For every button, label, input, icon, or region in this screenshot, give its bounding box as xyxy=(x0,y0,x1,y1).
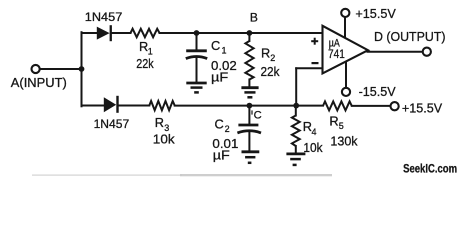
label R2 value xyxy=(261,45,280,79)
svg-text:2: 2 xyxy=(270,53,275,63)
label R5 value xyxy=(329,113,358,148)
wire: op-amp V- supply xyxy=(345,61,347,88)
wire: output to terminal D xyxy=(368,51,423,53)
capacitor C1 xyxy=(186,51,207,59)
svg-text:C: C xyxy=(211,38,220,53)
node C junction xyxy=(247,103,253,109)
svg-text:C: C xyxy=(254,110,262,122)
svg-text:C: C xyxy=(215,116,224,131)
op-amp U1 µA741 xyxy=(311,26,368,74)
- input sign xyxy=(312,62,319,64)
junction: inverting input / R4 / R5 xyxy=(293,103,299,109)
wire: C2 bottom lead to ground xyxy=(248,133,250,151)
svg-text:D (OUTPUT): D (OUTPUT) xyxy=(374,30,446,44)
wire: R4 bottom lead to ground xyxy=(295,146,297,153)
svg-text:10k: 10k xyxy=(303,140,323,155)
wire: R1 to op-amp + input (through C1 and B nodes) xyxy=(160,32,323,34)
svg-text:-15.5V: -15.5V xyxy=(359,84,396,99)
wire: input vertical riser xyxy=(81,32,83,106)
terminal -15.5V xyxy=(342,88,350,96)
wire: R5 to +15.5V terminal xyxy=(352,105,391,107)
wire: R3 to R5 (through C and inverting nodes) xyxy=(175,105,323,107)
svg-text:B: B xyxy=(250,11,258,25)
svg-text:2: 2 xyxy=(225,124,230,134)
svg-text:A(INPUT): A(INPUT) xyxy=(11,76,67,90)
wire: bottom branch to diode D2 xyxy=(82,105,104,107)
wire: C1 bottom lead to ground xyxy=(196,58,198,82)
svg-text:5: 5 xyxy=(339,121,344,131)
diode D2 1N457 (bottom) xyxy=(104,96,119,113)
wire: diode D2 to R3 xyxy=(119,105,150,107)
svg-text:4: 4 xyxy=(312,127,317,137)
svg-text:+15.5V: +15.5V xyxy=(402,101,443,116)
scan artifact: faint bottom streak xyxy=(32,174,182,176)
terminal +15.5V (top) xyxy=(341,9,349,17)
label R3 value xyxy=(153,115,175,146)
capacitor C2 xyxy=(237,125,261,133)
label R4 value xyxy=(303,119,323,155)
diode D1 1N457 (top) xyxy=(97,25,112,41)
wire: R4 top lead xyxy=(295,106,297,116)
junction: C1 at top wire xyxy=(194,30,200,36)
wire: inverting input vertical to bottom node xyxy=(295,68,297,105)
svg-text:SeekIC.com: SeekIC.com xyxy=(403,162,457,176)
resistor R3 xyxy=(149,101,174,110)
resistor R5 xyxy=(323,101,352,110)
wire: R2 top lead xyxy=(248,33,250,41)
svg-text:130k: 130k xyxy=(330,133,358,148)
svg-text:1: 1 xyxy=(222,46,227,56)
svg-text:µA: µA xyxy=(329,38,341,50)
wire: C2 top lead xyxy=(248,106,250,124)
terminal D (output) xyxy=(423,48,431,56)
ground (R2) xyxy=(241,88,258,98)
wire: top branch to diode D1 xyxy=(82,32,97,34)
svg-text:1N457: 1N457 xyxy=(94,117,130,131)
label C1 value xyxy=(211,38,237,84)
+ input sign xyxy=(311,38,318,45)
ground (C2) xyxy=(242,152,260,163)
node A junction xyxy=(79,66,85,72)
svg-text:22k: 22k xyxy=(261,64,280,79)
wire: op-amp V+ supply xyxy=(344,18,346,39)
wire: R2 bottom lead to ground xyxy=(248,80,250,87)
svg-text:10k: 10k xyxy=(153,132,175,147)
resistor R4 xyxy=(292,116,300,147)
svg-text:µF: µF xyxy=(211,70,229,84)
terminal +15.5V (right) xyxy=(391,102,399,110)
resistor R1 xyxy=(131,29,160,37)
ground (C1) xyxy=(186,83,206,92)
label C2 value xyxy=(212,116,238,162)
wire: op-amp inverting input horizontal xyxy=(296,67,322,69)
label R1 value xyxy=(136,39,154,71)
wire: diode D1 to R1 xyxy=(112,32,131,34)
wire: input horizontal xyxy=(40,68,82,70)
wire: C1 top lead xyxy=(196,33,198,50)
resistor R2 xyxy=(245,41,253,80)
svg-text:R: R xyxy=(155,115,164,130)
svg-text:741: 741 xyxy=(328,49,345,61)
svg-text:R: R xyxy=(261,45,270,60)
ground (R4) xyxy=(286,154,305,165)
terminal A (input) xyxy=(31,65,39,73)
svg-text:22k: 22k xyxy=(136,56,154,71)
svg-text:µF: µF xyxy=(213,148,230,162)
node B junction xyxy=(247,30,253,36)
svg-text:R: R xyxy=(329,113,338,128)
svg-text:1: 1 xyxy=(148,47,153,57)
svg-text:+15.5V: +15.5V xyxy=(355,6,396,21)
label node C xyxy=(252,110,262,122)
svg-text:1N457: 1N457 xyxy=(85,10,123,24)
